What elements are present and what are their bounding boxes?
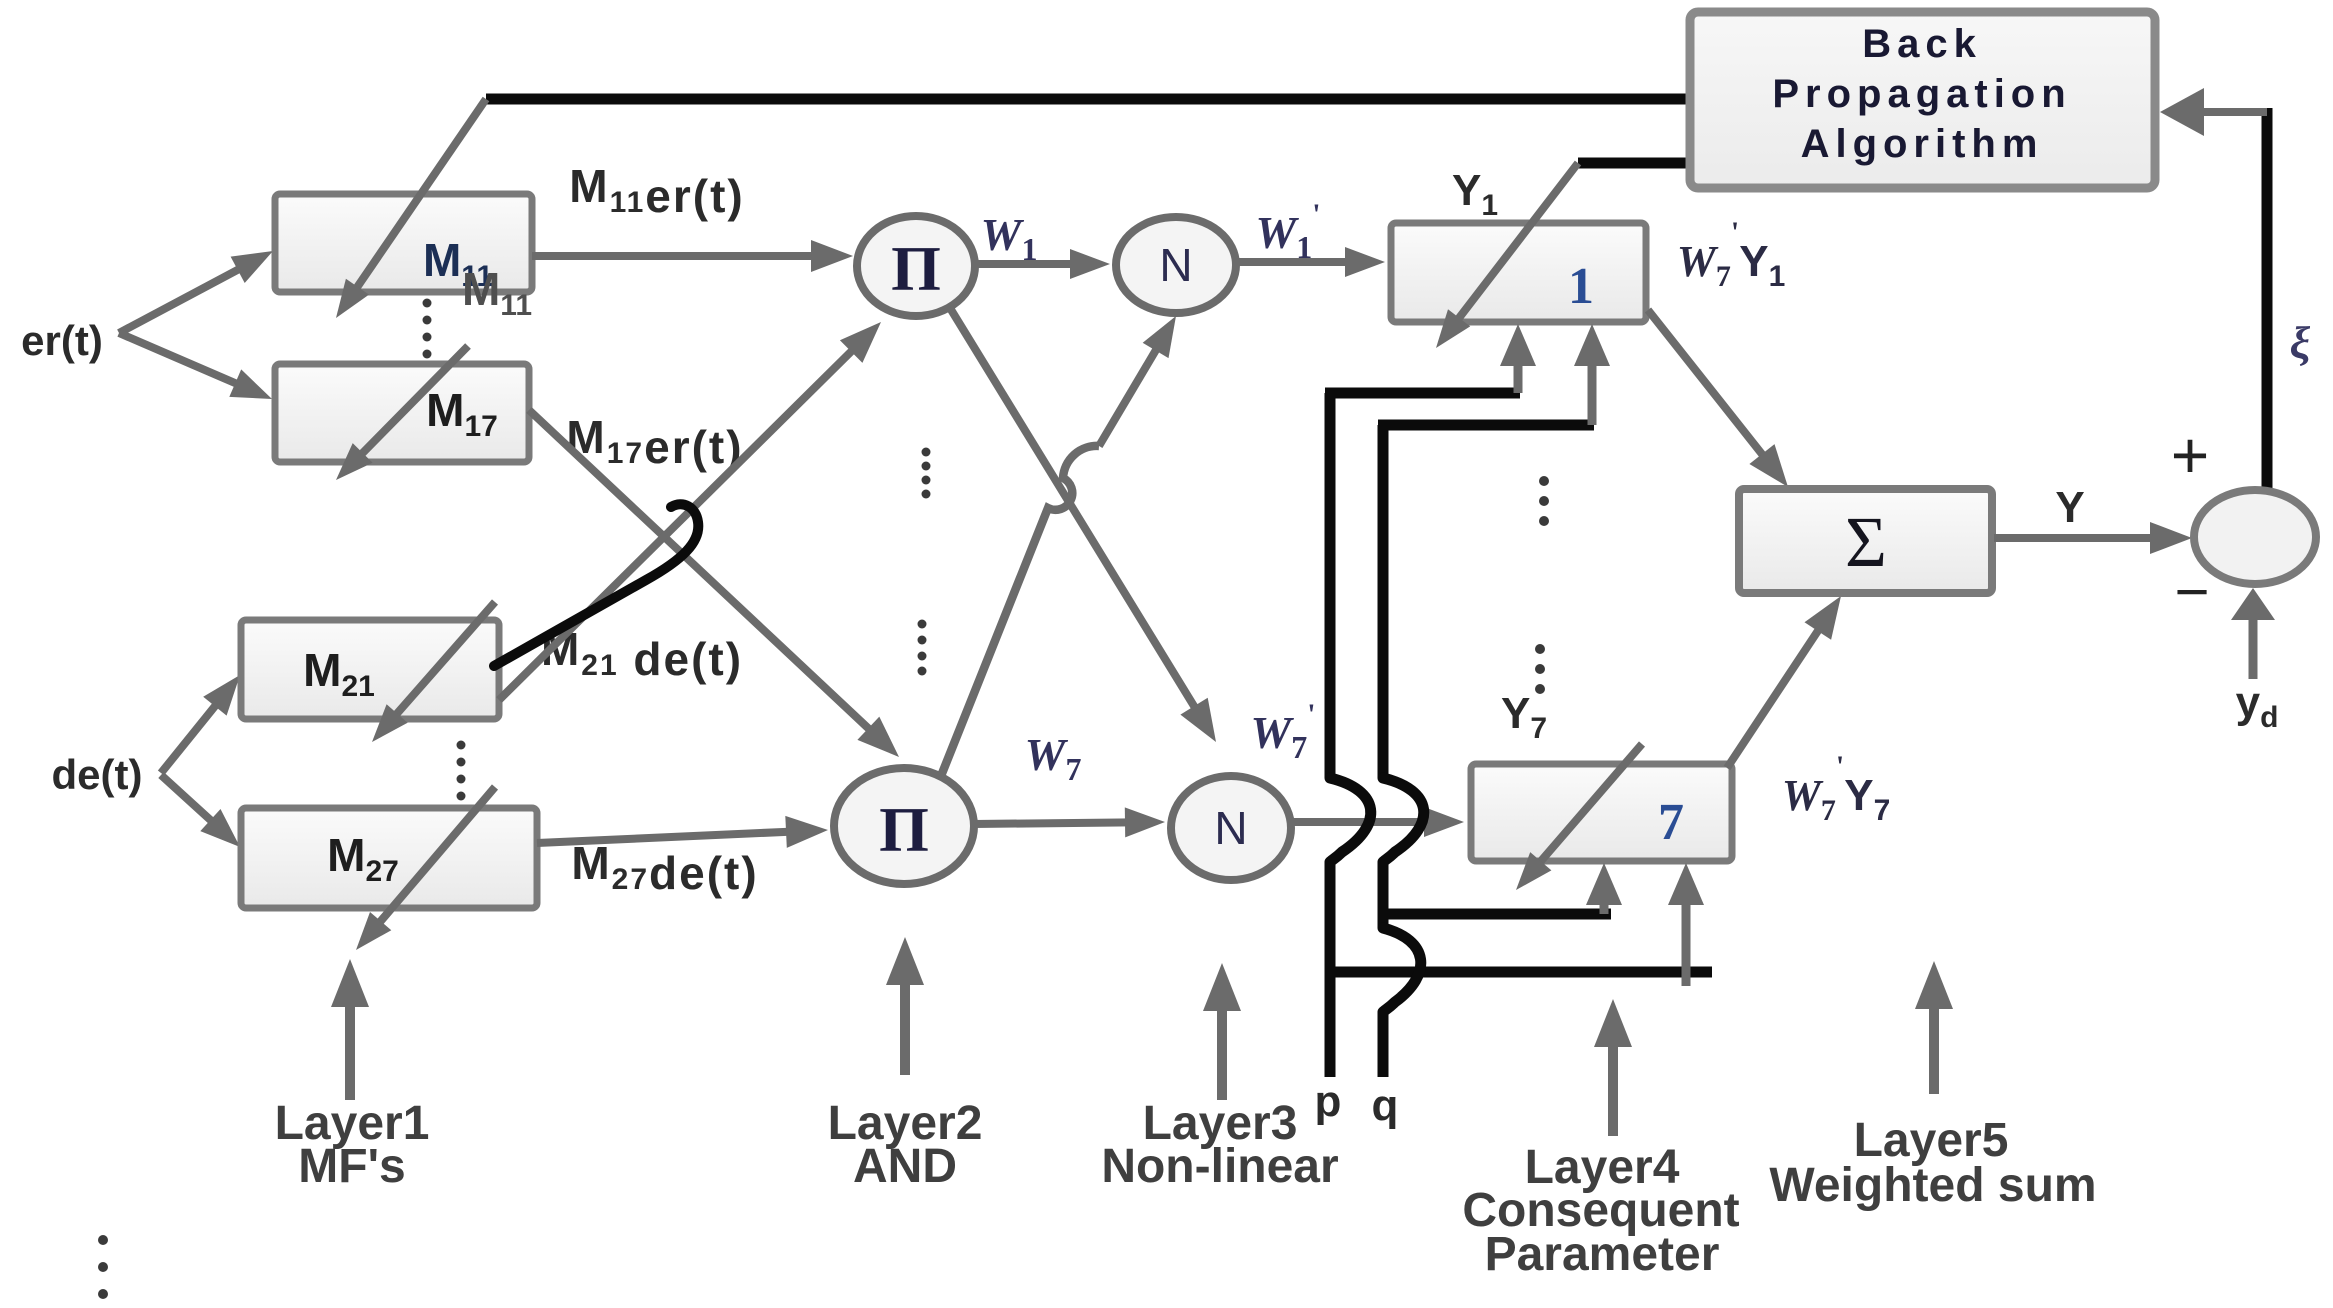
svg-text:q: q [1372, 1081, 1399, 1130]
svg-text:1: 1 [1568, 258, 1594, 315]
net p vertical line [1325, 393, 1336, 778]
arrow Layer5 [1929, 1003, 1939, 1094]
arrow Layer4 [1608, 1041, 1618, 1136]
svg-text:Algorithm: Algorithm [1801, 122, 2044, 166]
slash adaptive arrow through M17 [359, 346, 469, 457]
svg-text:Π: Π [891, 233, 941, 304]
svg-text:−: − [2174, 558, 2209, 625]
wire rule1 to Sum [1648, 310, 1766, 459]
ellipsis right column upper [1539, 476, 1549, 486]
wire er(t) fork to M11 [119, 267, 243, 333]
net p lower branch to rule box 7 [1330, 967, 1712, 978]
svg-text:Σ: Σ [1845, 502, 1887, 582]
svg-text:MF's: MF's [298, 1140, 405, 1193]
node N2 circle [1171, 776, 1291, 880]
svg-text:Non-linear: Non-linear [1101, 1140, 1338, 1193]
svg-text:Propagation: Propagation [1772, 72, 2071, 116]
wire feedback from Back Propagation box to M11 slash (top black line) [486, 94, 1692, 105]
wire M11 to P1 [532, 252, 817, 260]
wire Sum to comparator with Y [1994, 534, 2156, 542]
wire error signal from comparator up to Back Propagation (black vertical) [2262, 108, 2273, 494]
node N1 circle [1116, 217, 1236, 313]
wire feedback from Back Propagation box to rule-1 slash (black line) [1578, 158, 1692, 169]
ellipsis between M21 and M27 [457, 741, 466, 750]
ellipsis above P2 [918, 620, 927, 629]
wire de(t) fork to M21 [161, 702, 219, 774]
wire P1 to N2 (diagonal down) [950, 308, 1197, 711]
wire de(t) fork to M27 [161, 775, 215, 824]
black hook wire from M21 corner jumping the M17 line [494, 504, 698, 666]
arrow Layer2 [900, 979, 910, 1075]
wire N1 to rule box 1 [1236, 258, 1351, 266]
slash adaptive arrow through rule box 7 [1537, 744, 1642, 866]
svg-text:Π: Π [879, 794, 929, 865]
wire M17 to P2 (diagonal down) [529, 410, 873, 732]
wire yd into comparator [2249, 614, 2258, 679]
svg-text:ξ: ξ [2290, 317, 2311, 368]
svg-text:p: p [1315, 1077, 1342, 1126]
node comparator circle [2194, 490, 2316, 584]
svg-text:Parameter: Parameter [1485, 1228, 1720, 1281]
net q branch to rule box 7 [1383, 909, 1611, 920]
box M27 (membership function) [241, 808, 537, 908]
wire N2 to rule box 7 [1291, 818, 1430, 826]
wire er(t) fork to M17 [119, 333, 241, 386]
svg-text:Y: Y [2055, 483, 2084, 532]
slash adaptive arrow through M27 [377, 787, 495, 926]
box M17 (membership function) [275, 364, 529, 462]
wire P2 to N1 with loop jump [941, 446, 1099, 776]
box M11 (membership function) [275, 194, 532, 292]
wire P2 to N2 [974, 822, 1131, 824]
arrow q into rule box 7 bottom [1600, 899, 1609, 914]
svg-text:er(t): er(t) [21, 317, 103, 364]
svg-text:+: + [2171, 418, 2210, 492]
ellipsis bottom left [98, 1235, 108, 1245]
net p top branch to rule box 1 [1325, 388, 1520, 399]
box rule 1 (consequent) [1391, 223, 1646, 322]
svg-text:7: 7 [1658, 794, 1684, 851]
svg-text:Weighted sum: Weighted sum [1769, 1159, 2096, 1212]
svg-text:N: N [1214, 802, 1247, 854]
ellipsis below P1 [922, 448, 931, 457]
box rule 7 (consequent) [1471, 764, 1732, 861]
wire rule7 to Sum [1727, 626, 1821, 768]
box Back Propagation Algorithm [1690, 12, 2155, 188]
wire arrow into Back Propagation right edge [2198, 108, 2267, 116]
slash adaptive arrow through rule box 1 [1456, 163, 1579, 323]
arrow Layer1 [345, 1001, 355, 1100]
node P2 product (AND) circle [834, 768, 974, 884]
wire M21 to P1 (diagonal up) [499, 347, 855, 700]
svg-text:Back: Back [1862, 22, 1982, 66]
wire M27 to P2 [537, 832, 792, 843]
net q top branch to rule box 1 [1378, 420, 1594, 431]
box M21 (membership function) [241, 620, 499, 719]
svg-text:de(t): de(t) [52, 751, 143, 798]
arrow Layer3 [1217, 1005, 1227, 1100]
svg-text:N: N [1159, 239, 1192, 291]
svg-text:AND: AND [853, 1140, 957, 1193]
arrow p into rule box 7 bottom [1682, 972, 1691, 986]
arrow p into rule box 1 bottom [1514, 360, 1523, 393]
slash adaptive arrow through M11 from feedback line [354, 99, 486, 292]
wire P1 to N1 [975, 260, 1076, 268]
net q vertical line [1378, 425, 1389, 778]
box Sum (weighted sum) [1739, 489, 1992, 593]
ellipsis between M11 and M17 [423, 299, 432, 308]
arrow q into rule box 1 bottom [1588, 360, 1597, 425]
node P1 product (AND) circle [857, 216, 975, 316]
slash adaptive arrow through M21 [393, 602, 495, 718]
ellipsis right column lower [1535, 644, 1545, 654]
